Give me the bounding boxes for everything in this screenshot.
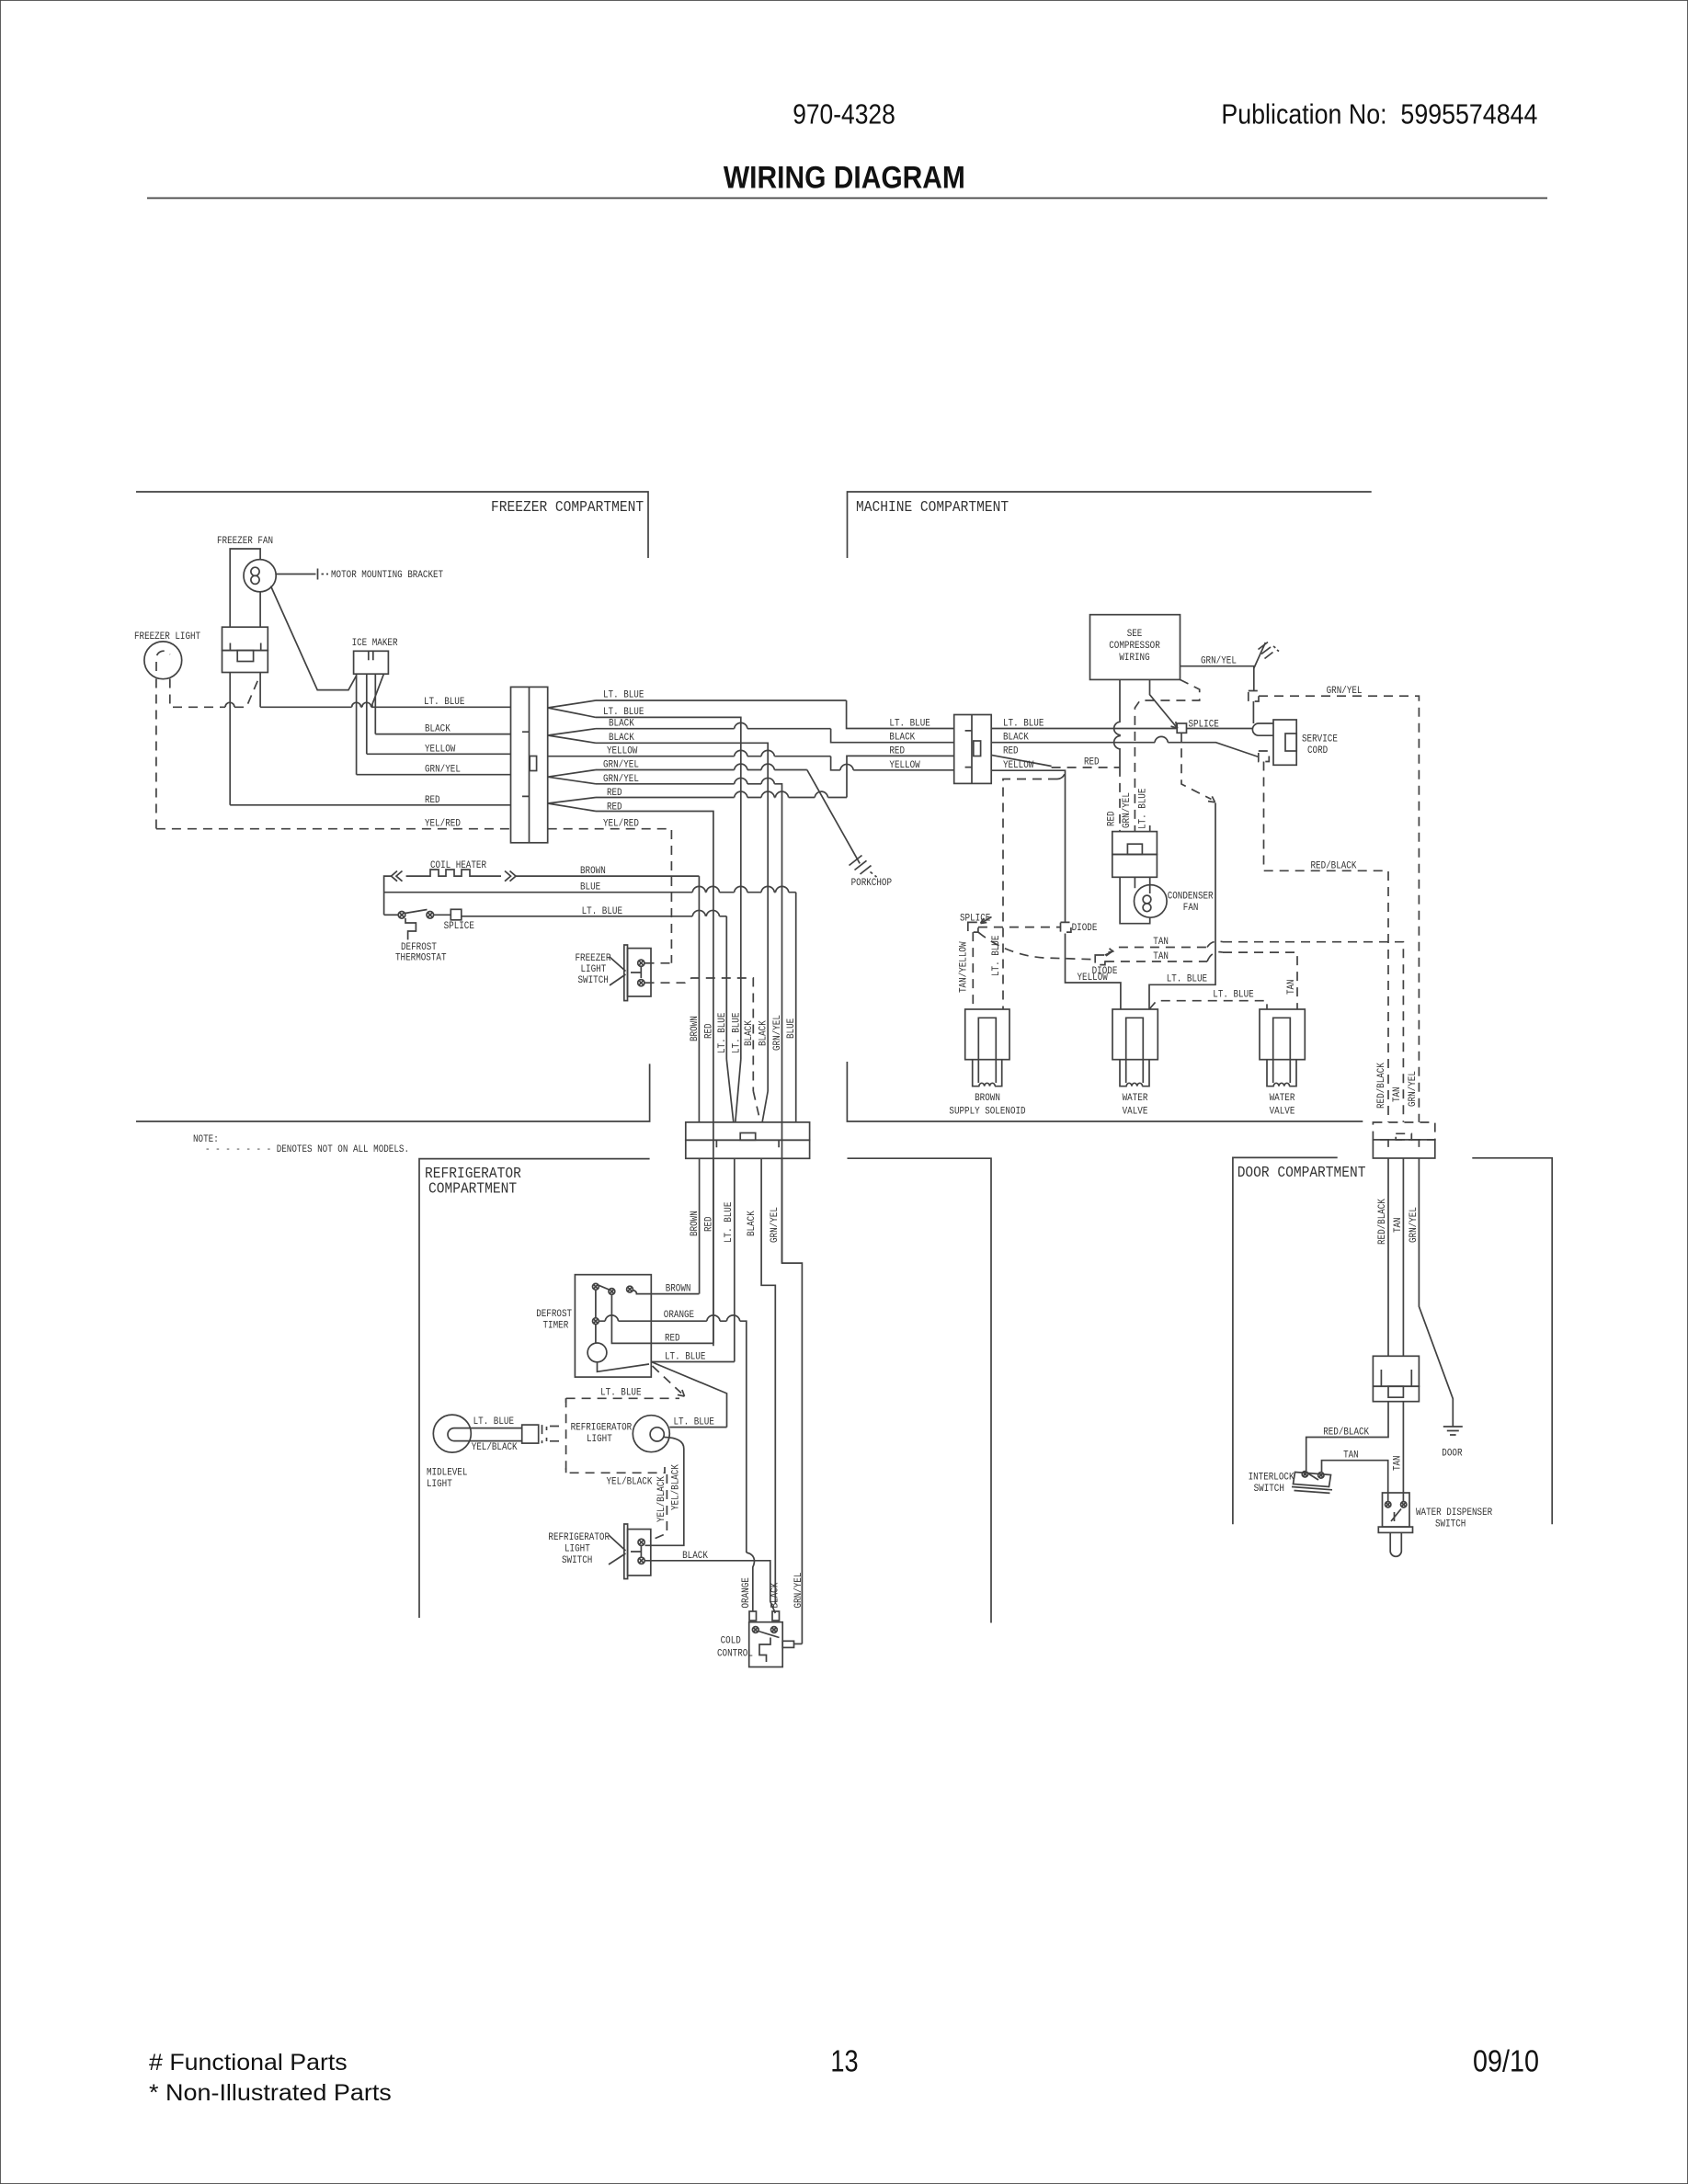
door compartment outline right	[1472, 1158, 1552, 1525]
relay leg middle to fan	[1134, 877, 1135, 888]
svg-text:DIODE: DIODE	[1072, 923, 1098, 934]
service cord body	[1273, 720, 1296, 765]
machine compartment bracket	[848, 492, 1372, 558]
svg-text:YEL/BLACK: YEL/BLACK	[472, 1442, 518, 1453]
machine harness connector divider	[971, 715, 973, 784]
freezer fan motor circle	[244, 560, 276, 592]
wire TAN1 dashed	[1106, 942, 1403, 1122]
cold control box	[749, 1622, 783, 1667]
svg-text:COMPRESSOR: COMPRESSOR	[1109, 641, 1160, 652]
defrost timer box	[575, 1275, 651, 1377]
diode2 arrow	[1105, 949, 1113, 955]
svg-text:* Non-Illustrated Parts: * Non-Illustrated Parts	[149, 2080, 392, 2106]
cold control terminal right	[771, 1627, 778, 1633]
timer blade	[599, 1285, 610, 1290]
flag BLACK pair	[548, 729, 596, 744]
svg-text:ICE MAKER: ICE MAKER	[352, 638, 398, 649]
dispenser switch base plate	[1378, 1527, 1412, 1532]
refrigerator light switch pointer	[609, 1535, 626, 1564]
grn/yel splice square upper	[1249, 691, 1259, 702]
svg-text:DIODE: DIODE	[1092, 966, 1118, 977]
wire LT. BLUE to service cord with splice	[991, 728, 1252, 730]
refrigerator light switch terminal 1	[638, 1539, 644, 1545]
svg-text:SWITCH: SWITCH	[1435, 1519, 1466, 1530]
wire BLUE vertical down	[795, 893, 797, 1122]
wire RED out1 with hop over porkchop lead	[596, 797, 847, 799]
svg-text:WATER: WATER	[1270, 1093, 1295, 1104]
svg-text:BROWN: BROWN	[975, 1093, 1000, 1104]
svg-text:LT. BLUE: LT. BLUE	[889, 719, 930, 730]
svg-text:FREEZER FAN: FREEZER FAN	[217, 536, 273, 547]
wire BLACK from switch	[645, 1561, 776, 1613]
svg-text:CONTROL: CONTROL	[717, 1649, 753, 1660]
wire GRN/YEL out1 to porkchop	[596, 769, 807, 771]
dispenser connector notch	[1388, 1386, 1403, 1397]
svg-text:BLACK: BLACK	[747, 1211, 758, 1236]
svg-text:RED: RED	[665, 1333, 680, 1344]
service cord inner	[1285, 734, 1296, 751]
ORANGE crimp	[749, 1611, 757, 1621]
svg-text:BLACK: BLACK	[758, 1020, 770, 1046]
wire fan connector left down to RED	[229, 673, 231, 805]
freezer light switch contact bar	[631, 967, 641, 978]
hops LT.BLUE over ice maker pins	[352, 702, 371, 707]
svg-text:FREEZER: FREEZER	[576, 953, 611, 964]
water valve middle legs	[1120, 1060, 1149, 1086]
flag RED pair	[548, 798, 596, 812]
midlevel light circle	[433, 1415, 471, 1452]
hop RED1 over porkchop diagonal	[815, 791, 827, 797]
refrigerator compartment outline right	[848, 1158, 992, 1622]
main interconnect connector ticks	[716, 1140, 779, 1147]
svg-text:LT. BLUE: LT. BLUE	[1213, 989, 1254, 1000]
svg-text:LT. BLUE: LT. BLUE	[991, 935, 1002, 976]
water valve middle inner U	[1126, 1018, 1144, 1059]
refrigerator light switch body	[628, 1530, 651, 1575]
cold control GRN/YEL wire	[794, 1643, 803, 1644]
door compartment outline left	[1233, 1157, 1338, 1524]
freezer compartment bottom border	[136, 1064, 650, 1121]
porkchop lead diagonal	[807, 770, 860, 864]
relay leg right through fan	[1149, 877, 1151, 893]
chassis ground upper	[1254, 643, 1266, 668]
svg-text:DOOR: DOOR	[1442, 1449, 1463, 1460]
svg-text:TAN: TAN	[1392, 1086, 1403, 1102]
water valve right coil	[1273, 1083, 1289, 1086]
supply solenoid legs	[973, 1060, 1002, 1086]
svg-text:TAN: TAN	[1153, 937, 1169, 948]
interlock blade	[1307, 1473, 1318, 1481]
timer diagonal to light circuit	[651, 1362, 726, 1428]
svg-text:LT. BLUE: LT. BLUE	[674, 1417, 715, 1428]
svg-text:DEFROST: DEFROST	[536, 1309, 572, 1320]
machine harness connector notch	[974, 741, 981, 756]
svg-text:RED: RED	[1084, 757, 1100, 768]
hop of light dashed over fan wire	[225, 702, 234, 707]
coil heater chevron right	[505, 871, 516, 882]
svg-text:LT. BLUE: LT. BLUE	[582, 906, 623, 917]
freezer fan mount outline	[230, 549, 260, 627]
machine harness connector ticks	[965, 731, 972, 768]
wire TAN/YELLOW dashed splice to solenoid	[972, 932, 974, 1009]
svg-text:CONDENSER: CONDENSER	[1168, 892, 1214, 903]
svg-text:LT. BLUE: LT. BLUE	[1138, 788, 1149, 829]
motor mounting bracket dots	[322, 574, 329, 575]
door connector dashed top half	[1373, 1122, 1434, 1140]
svg-text:YELLOW: YELLOW	[607, 746, 638, 757]
refrigerator light switch contact	[631, 1546, 641, 1557]
svg-text:TAN: TAN	[1393, 1455, 1404, 1471]
svg-text:LIGHT: LIGHT	[581, 964, 607, 975]
svg-text:GRN/YEL: GRN/YEL	[772, 1015, 783, 1051]
svg-text:- - - - - - - DENOTES NOT ON A: - - - - - - - DENOTES NOT ON ALL MODELS.	[205, 1144, 409, 1155]
diode1 dashed square	[1061, 922, 1071, 932]
wire TAN below connector	[1402, 1158, 1404, 1356]
wire YELLOW right run and down	[991, 770, 1121, 1009]
svg-text:RED: RED	[704, 1023, 715, 1039]
supply solenoid connector body	[965, 1009, 1009, 1060]
svg-text:GRN/YEL: GRN/YEL	[1122, 792, 1133, 828]
freezer harness connector divider	[529, 687, 530, 842]
svg-text:SPLICE: SPLICE	[1189, 720, 1220, 731]
freezer light switch pointer	[610, 957, 626, 985]
defrost thermostat blade	[405, 910, 428, 914]
defrost thermostat terminals	[398, 912, 405, 919]
svg-text:SWITCH: SWITCH	[578, 975, 609, 986]
service cord lower splice square dashed	[1259, 751, 1270, 762]
flag GRN/YEL pair	[548, 770, 596, 784]
supply solenoid coil	[979, 1083, 995, 1086]
wire YELLOW out	[548, 756, 831, 757]
wire freezer light YEL/RED dashed down	[155, 679, 157, 829]
machine compartment bottom border	[847, 1062, 1363, 1121]
machine harness connector body	[954, 715, 992, 784]
wire freezer light to fan connector dashed	[170, 675, 260, 707]
wire BLACK to service cord square	[991, 743, 1259, 757]
wire GRN/YEL from compressor to ground	[1180, 666, 1254, 691]
svg-text:CORD: CORD	[1307, 745, 1329, 756]
wire fan connector right down to LT.BLUE	[259, 673, 261, 708]
wire RED dashed to relay drop	[1052, 768, 1120, 832]
freezer light switch terminal 1	[638, 960, 644, 966]
wire LT. BLUE out2 turns down	[596, 717, 741, 1059]
svg-text:# Functional Parts: # Functional Parts	[149, 2050, 348, 2076]
relay block lower	[1112, 855, 1158, 878]
wire LT.BLUE dashed valve link	[1149, 1001, 1267, 1009]
svg-text:MOTOR MOUNTING BRACKET: MOTOR MOUNTING BRACKET	[331, 570, 443, 581]
svg-text:TIMER: TIMER	[543, 1321, 569, 1332]
midlevel dashed stubs	[550, 1398, 566, 1473]
svg-text:WIRING: WIRING	[1119, 653, 1149, 664]
svg-text:LT. BLUE: LT. BLUE	[717, 1012, 728, 1053]
svg-text:PORKCHOP: PORKCHOP	[851, 878, 893, 889]
timer terminal 3	[627, 1286, 633, 1292]
svg-text:SPLICE: SPLICE	[444, 921, 475, 932]
splice2 square dashed	[968, 922, 978, 932]
svg-text:DOOR COMPARTMENT: DOOR COMPARTMENT	[1237, 1164, 1366, 1181]
freezer harness connector ticks	[522, 732, 530, 796]
ice maker pin BLACK	[374, 674, 376, 734]
ice maker notch	[369, 651, 373, 660]
wire YELLOW ice maker	[367, 753, 511, 755]
midlevel connector	[522, 1425, 539, 1443]
porkchop hatch	[850, 856, 872, 875]
defrost thermostat sensor zigzag	[405, 918, 416, 939]
svg-text:GRN/YEL: GRN/YEL	[1327, 686, 1363, 697]
svg-text:WIRING DIAGRAM: WIRING DIAGRAM	[724, 161, 965, 196]
water dispenser switch body	[1383, 1493, 1410, 1527]
wire RED freezer fan	[230, 804, 510, 806]
svg-text:LIGHT: LIGHT	[587, 1434, 612, 1445]
svg-text:THERMOSTAT: THERMOSTAT	[395, 953, 447, 964]
dispenser connector bottom	[1373, 1386, 1419, 1402]
freezer light bulb	[144, 642, 182, 679]
splice square on LT.BLUE	[1177, 723, 1186, 733]
compressor wiring box	[1090, 615, 1180, 680]
hop YELLOW over RED riser	[840, 764, 853, 769]
refrigerator light circle	[633, 1416, 669, 1452]
below connector vertical LT.BLUE	[734, 1158, 736, 1361]
wire LT.BLUE into timer	[651, 1361, 735, 1363]
svg-text:SWITCH: SWITCH	[1254, 1484, 1284, 1495]
relay pin GRN/YEL dashed	[1135, 679, 1199, 831]
wire GRN/YEL below connector to door ground	[1419, 1158, 1453, 1427]
freezer harness connector body	[511, 687, 548, 842]
main interconnect connector bottom half	[686, 1140, 810, 1158]
freezer compartment bracket	[136, 492, 648, 558]
svg-text:BLACK: BLACK	[682, 1551, 708, 1562]
water valve middle coil	[1126, 1083, 1142, 1086]
timer terminal 2	[609, 1289, 615, 1295]
compressor leg1 dashed to relay	[1119, 758, 1121, 768]
dashed LT.BLUE optional tap to solenoid	[1003, 773, 1066, 1010]
svg-text:TAN/YELLOW: TAN/YELLOW	[959, 941, 970, 993]
svg-text:RED/BLACK: RED/BLACK	[1377, 1199, 1388, 1245]
wire splice2 diagonal to diode2 dashed	[978, 932, 1095, 960]
svg-text:TAN: TAN	[1153, 951, 1169, 962]
wire LT.BLUE to refrigerator light	[669, 1427, 726, 1428]
motor mounting bracket lead	[276, 569, 317, 580]
svg-text:GRN/YEL: GRN/YEL	[1408, 1071, 1419, 1107]
svg-text:LT. BLUE: LT. BLUE	[473, 1416, 515, 1428]
wire RED/BLACK dashed down and right	[1264, 762, 1389, 1122]
wire BLACK out2 turns down	[596, 743, 768, 1091]
wire BLACK ice maker	[375, 734, 510, 735]
coil heater chevron left	[392, 871, 403, 882]
svg-text:BROWN: BROWN	[580, 866, 606, 877]
svg-text:BLUE: BLUE	[580, 882, 601, 893]
svg-text:Publication No: 5995574844: Publication No: 5995574844	[1221, 99, 1537, 131]
below connector vertical BROWN	[699, 1158, 701, 1293]
svg-text:13: 13	[830, 2044, 858, 2078]
TAN2 hop-step	[1207, 952, 1223, 961]
svg-text:LT. BLUE: LT. BLUE	[424, 697, 465, 708]
door connector ticks	[1388, 1140, 1419, 1147]
svg-text:WATER DISPENSER: WATER DISPENSER	[1416, 1507, 1493, 1519]
compressor leg1 with hops	[1114, 679, 1120, 758]
dispenser switch plunger	[1390, 1532, 1401, 1556]
below connector vertical GRN/YEL with jog	[782, 1158, 803, 1644]
ice maker body	[354, 651, 389, 674]
midlevel light loop	[448, 1428, 522, 1441]
dashed optional box left side	[566, 1398, 665, 1473]
water valve right inner U	[1273, 1018, 1291, 1059]
cold control terminal left	[752, 1627, 758, 1633]
splice box on thermostat line	[451, 909, 462, 920]
svg-text:BLACK: BLACK	[770, 1582, 781, 1608]
wire GRN/YEL out2 turns down	[596, 784, 782, 1263]
fan connector lower half	[222, 651, 268, 673]
svg-text:BROWN: BROWN	[690, 1016, 701, 1041]
wire LT. BLUE freezer run	[260, 706, 510, 708]
svg-text:GRN/YEL: GRN/YEL	[1409, 1207, 1420, 1243]
svg-text:BLUE: BLUE	[786, 1018, 797, 1039]
svg-text:SERVICE: SERVICE	[1302, 734, 1338, 745]
fan connector notch	[237, 651, 253, 662]
coil heater element	[406, 870, 501, 876]
wire ORANGE from timer	[599, 1321, 747, 1553]
wire YEL/BLACK solid from light	[645, 1438, 684, 1546]
refrigerator compartment outline left	[419, 1159, 650, 1618]
svg-text:FREEZER COMPARTMENT: FREEZER COMPARTMENT	[491, 498, 644, 516]
arrowhead to LT.BLUE valve line	[1208, 796, 1215, 802]
wire RED out2 turns down	[596, 812, 713, 1344]
svg-text:BLACK: BLACK	[609, 719, 634, 730]
svg-text:YEL/BLACK: YEL/BLACK	[607, 1477, 653, 1488]
wire TAN to dispenser switch	[1402, 1402, 1404, 1501]
freezer light switch body	[628, 949, 652, 996]
wire splice2 to diode1 dashed	[978, 927, 1061, 928]
freezer light filament	[156, 651, 170, 671]
svg-text:MACHINE COMPARTMENT: MACHINE COMPARTMENT	[856, 498, 1009, 516]
wire fan to ice maker (bracket wire)	[271, 586, 357, 690]
freezer light switch terminal 2	[638, 980, 644, 986]
interlock switch terminal 1	[1302, 1472, 1307, 1477]
freezer fan coil	[251, 567, 259, 575]
svg-text:LIGHT: LIGHT	[565, 1544, 590, 1555]
staircase YELLOW step down with hop	[831, 756, 954, 770]
svg-text:VALVE: VALVE	[1123, 1107, 1148, 1118]
dispenser connector top	[1373, 1356, 1419, 1386]
relay inner box	[1127, 844, 1142, 854]
wire TAN2 dashed	[1105, 952, 1297, 1009]
wire GRN/YEL dashed to door	[1259, 696, 1419, 1122]
staircase LT.BLUE1 step down	[847, 700, 954, 729]
svg-text:VALVE: VALVE	[1270, 1107, 1295, 1118]
ice maker pin YELLOW	[366, 674, 368, 754]
wire BROWN coil heater to vertical	[516, 875, 699, 877]
svg-text:YELLOW: YELLOW	[425, 744, 456, 755]
dispenser switch terminal 1	[1386, 1502, 1391, 1507]
svg-text:RED: RED	[1107, 811, 1118, 826]
wire LT.BLUE-a vertical down	[725, 916, 727, 1060]
hop YELLOW over BLACK2 vertical	[761, 750, 774, 756]
svg-text:BLACK: BLACK	[425, 724, 451, 735]
svg-text:WATER: WATER	[1123, 1093, 1148, 1104]
relay leg left to fan bracket	[1120, 877, 1150, 923]
svg-text:RED: RED	[704, 1216, 715, 1232]
wire LT.BLUE-b converge	[736, 1060, 741, 1122]
svg-text:YEL/RED: YEL/RED	[425, 819, 461, 830]
svg-text:COLD: COLD	[721, 1635, 742, 1646]
cold control zigzag	[759, 1638, 770, 1663]
svg-text:COMPARTMENT: COMPARTMENT	[428, 1180, 517, 1198]
wire BLUE from thermostat left	[384, 892, 796, 893]
svg-text:REFRIGERATOR: REFRIGERATOR	[548, 1532, 610, 1543]
svg-text:09/10: 09/10	[1473, 2044, 1539, 2078]
wire BLACK out1	[596, 728, 831, 730]
svg-text:TAN: TAN	[1286, 979, 1297, 995]
condenser fan coil	[1143, 895, 1151, 904]
hops BLUE over verticals	[692, 886, 789, 892]
harness vertical BROWN	[698, 876, 700, 1122]
svg-text:BROWN: BROWN	[666, 1284, 691, 1295]
svg-text:LT. BLUE: LT. BLUE	[732, 1012, 743, 1053]
svg-text:LT. BLUE: LT. BLUE	[603, 690, 644, 701]
svg-text:FREEZER LIGHT: FREEZER LIGHT	[134, 631, 200, 643]
svg-text:TAN: TAN	[1393, 1217, 1404, 1233]
wire RED/BLACK to interlock	[1306, 1402, 1388, 1471]
below connector vertical BLACK with jog	[761, 1158, 775, 1604]
svg-text:LT. BLUE: LT. BLUE	[724, 1201, 735, 1243]
wire LT. BLUE out1	[596, 700, 847, 701]
svg-text:ORANGE: ORANGE	[741, 1577, 752, 1609]
wire RED into timer	[611, 1294, 713, 1343]
svg-text:RED: RED	[889, 745, 905, 756]
dispenser switch terminal 2	[1401, 1502, 1407, 1507]
svg-text:BLACK: BLACK	[609, 733, 634, 744]
svg-text:GRN/YEL: GRN/YEL	[425, 765, 461, 776]
dashed tap from splice to relay and valve	[1181, 733, 1212, 799]
svg-text:DEFROST: DEFROST	[401, 942, 437, 953]
wire BLACK-a dashed from switch	[645, 978, 754, 1091]
interlock switch terminal 2	[1318, 1473, 1324, 1478]
freezer light switch plate	[624, 945, 628, 1001]
midlevel connector mating dashes	[542, 1425, 543, 1443]
svg-text:INTERLOCK: INTERLOCK	[1249, 1472, 1295, 1483]
svg-text:SWITCH: SWITCH	[562, 1555, 592, 1566]
door connector bottom half	[1373, 1140, 1434, 1158]
wire YEL/RED dashed	[156, 828, 511, 830]
main interconnect connector notch	[740, 1133, 756, 1141]
svg-text:BLACK: BLACK	[744, 1020, 755, 1046]
timer dashed arrow to optional light	[653, 1366, 682, 1393]
title rule	[147, 198, 1547, 199]
wire YEL/RED into switch	[645, 962, 672, 964]
fan connector upper half	[222, 627, 268, 650]
interlock switch rocker base	[1292, 1487, 1332, 1494]
relay block upper	[1112, 832, 1158, 855]
ORANGE hop over BLACK wire	[747, 1553, 755, 1611]
BLACK crimp	[772, 1611, 780, 1621]
refrigerator light switch terminal 2	[638, 1557, 644, 1564]
svg-text:GRN/YEL: GRN/YEL	[770, 1207, 781, 1243]
supply solenoid inner U	[978, 1018, 996, 1059]
svg-text:RED: RED	[425, 795, 440, 806]
relay pin LT.BLUE stub	[1149, 825, 1151, 832]
porkchop dots	[871, 872, 877, 878]
svg-text:BLACK: BLACK	[889, 733, 915, 744]
svg-text:SEE: SEE	[1127, 629, 1143, 640]
staircase RED1 climb up	[847, 756, 954, 797]
svg-text:ORANGE: ORANGE	[664, 1310, 695, 1321]
freezer harness connector notch	[530, 756, 536, 771]
svg-text:RED/BLACK: RED/BLACK	[1311, 860, 1357, 871]
wire BLACK-b converge to connector	[762, 1091, 768, 1122]
svg-text:RED: RED	[1003, 745, 1019, 756]
cold control blade	[758, 1632, 780, 1638]
svg-text:MIDLEVEL: MIDLEVEL	[427, 1468, 467, 1479]
